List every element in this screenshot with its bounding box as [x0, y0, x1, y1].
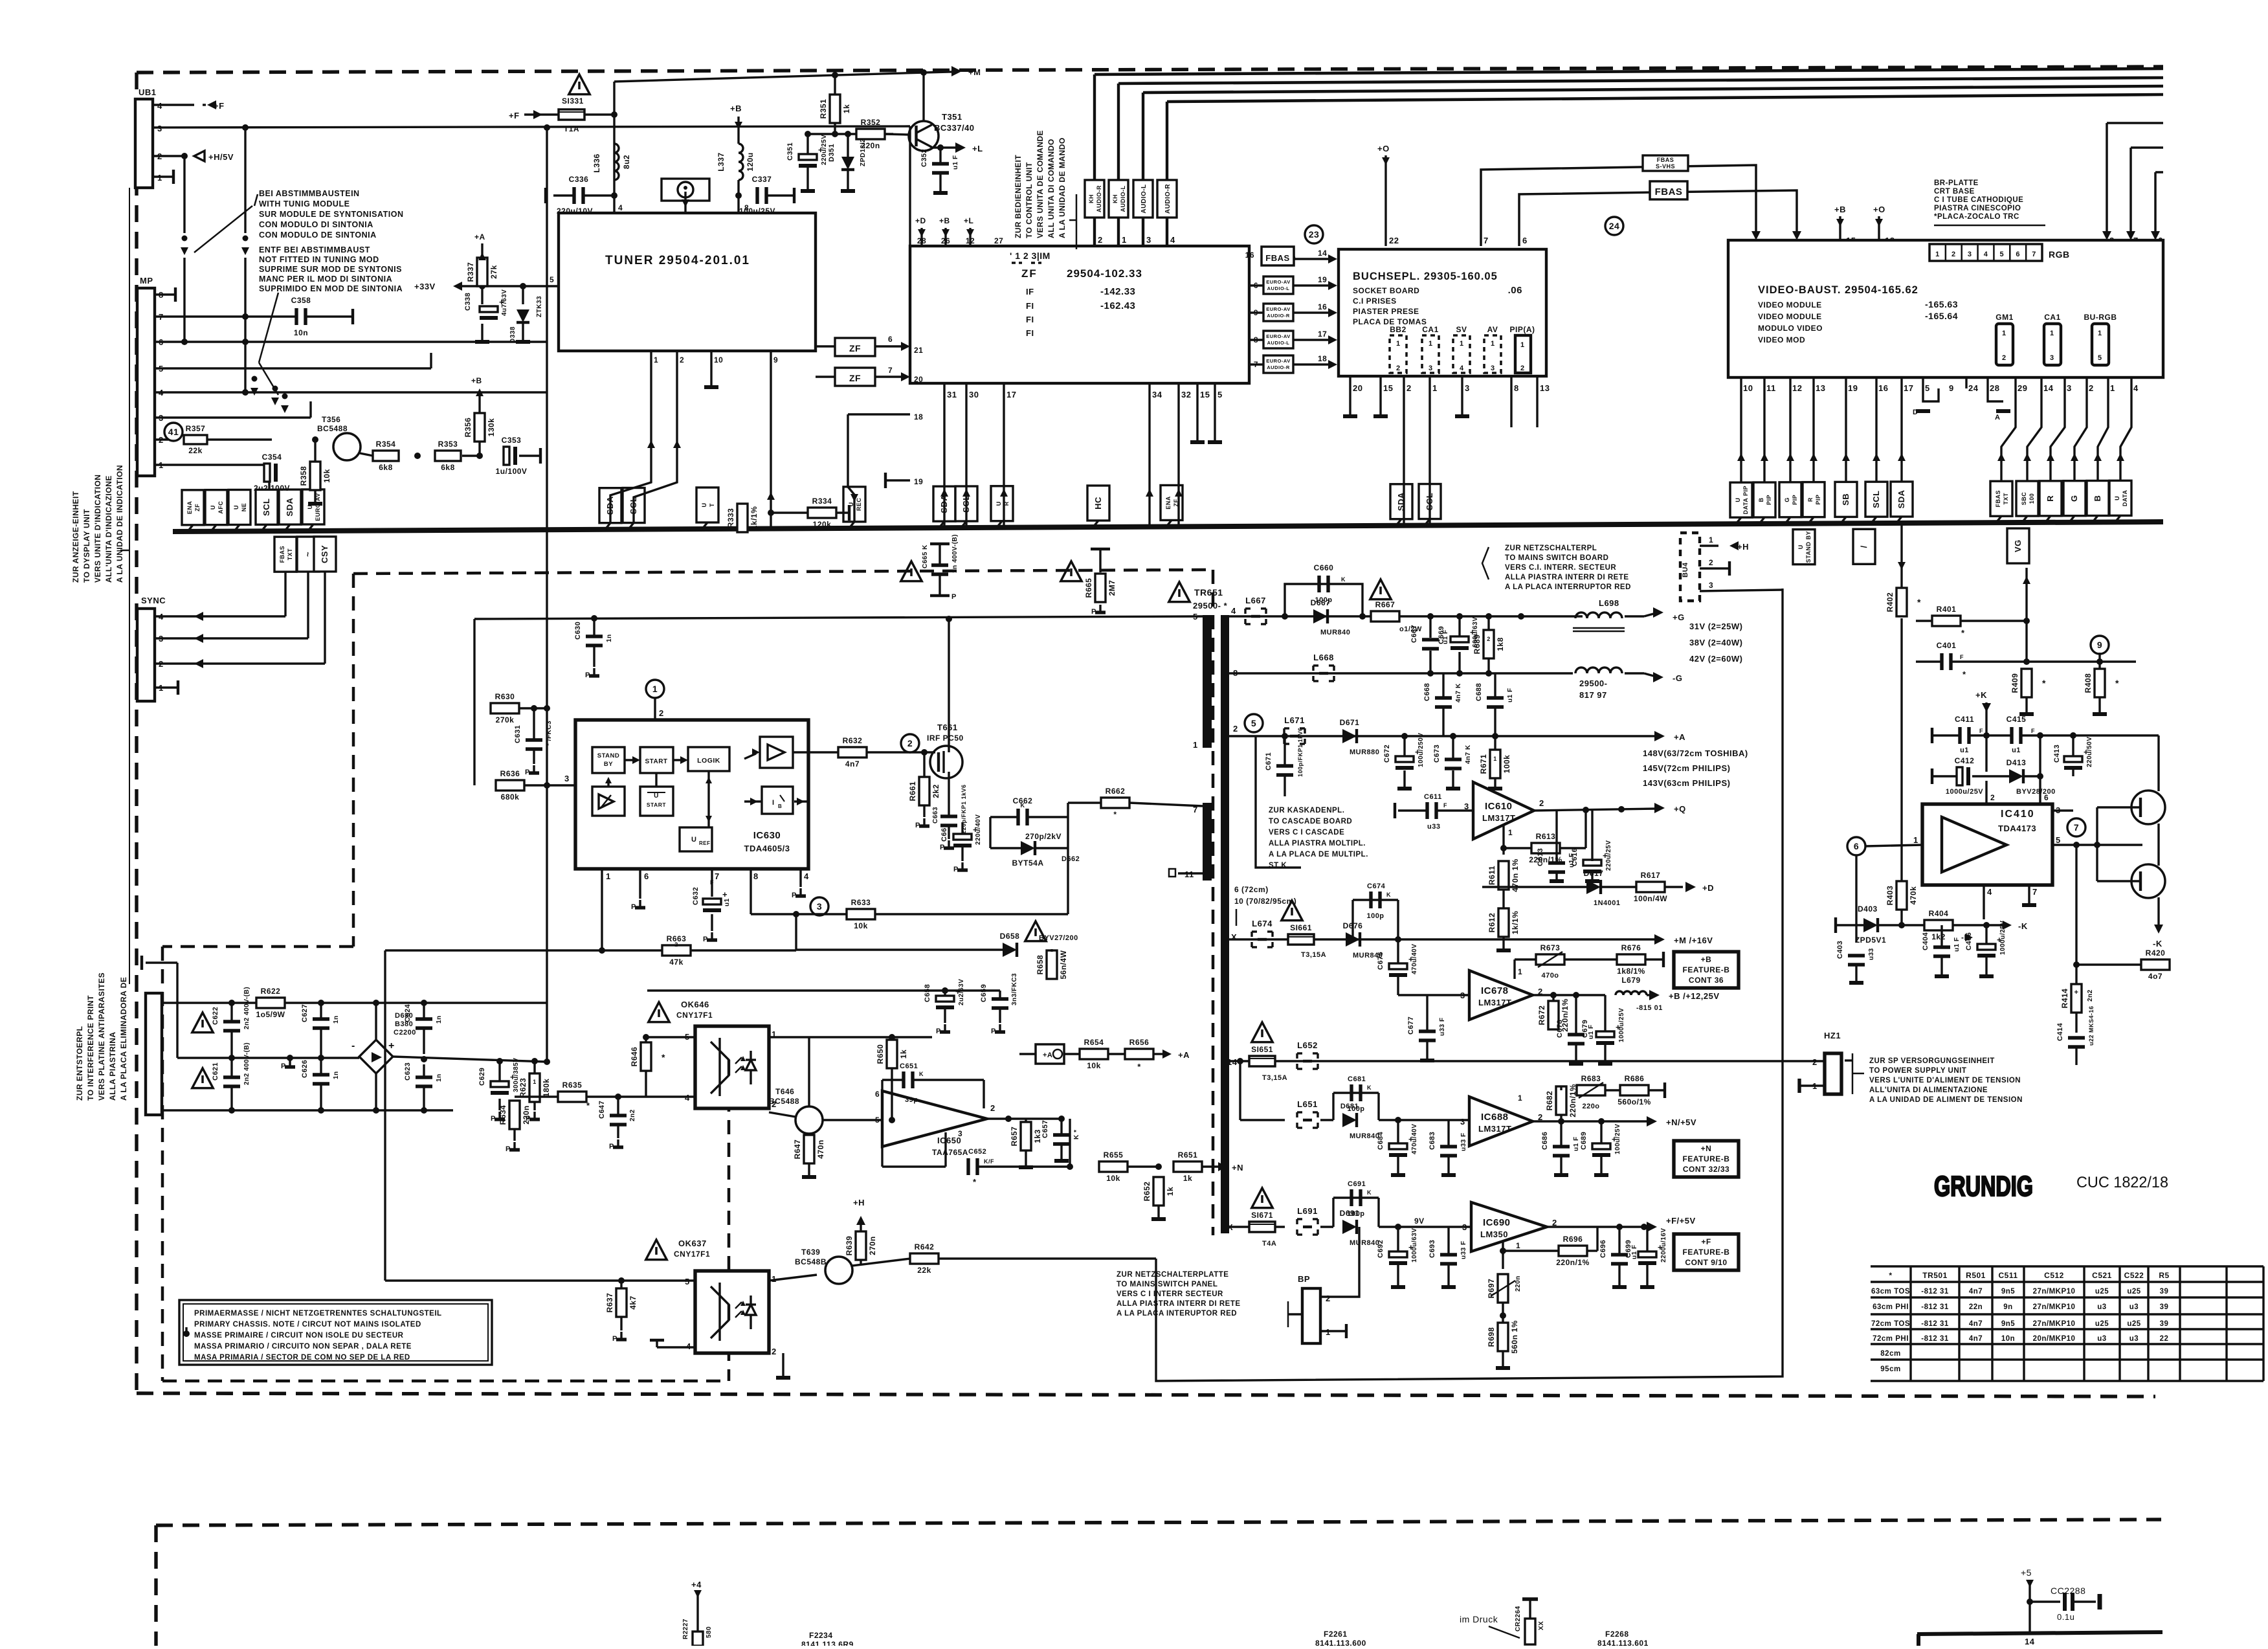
- svg-text:220n: 220n: [522, 1105, 531, 1124]
- svg-text:C660: C660: [1314, 563, 1334, 572]
- svg-text:+F: +F: [1701, 1237, 1711, 1246]
- svg-text:u3: u3: [2129, 1335, 2139, 1343]
- svg-text:1k/1%: 1k/1%: [750, 506, 759, 530]
- svg-text:C671: C671: [1265, 752, 1273, 770]
- svg-text:14: 14: [2043, 383, 2054, 393]
- svg-text:AV: AV: [1487, 325, 1498, 334]
- svg-text:ZF: ZF: [849, 343, 861, 353]
- svg-text:A LA PLACA DE MULTIPL.: A LA PLACA DE MULTIPL.: [1269, 851, 1368, 858]
- svg-text:SYNC: SYNC: [141, 596, 166, 605]
- svg-text:C669: C669: [1438, 626, 1445, 644]
- svg-text:FI: FI: [1026, 315, 1034, 324]
- svg-text:TXT: TXT: [287, 548, 293, 561]
- svg-text:EURO-AV: EURO-AV: [1266, 333, 1291, 339]
- svg-text:3: 3: [1465, 383, 1470, 393]
- svg-text:u3: u3: [2097, 1335, 2106, 1343]
- svg-text:9V: 9V: [1414, 1217, 1425, 1226]
- svg-text:C623: C623: [404, 1062, 412, 1081]
- svg-text:+O: +O: [1377, 144, 1390, 153]
- svg-text:C688: C688: [1475, 683, 1483, 701]
- svg-text:U: U: [654, 792, 659, 800]
- svg-text:R353: R353: [438, 440, 458, 449]
- svg-text:F: F: [710, 879, 714, 886]
- svg-text:T646: T646: [775, 1087, 794, 1096]
- svg-text:U: U: [210, 505, 216, 510]
- svg-text:27n/MKP10: 27n/MKP10: [2033, 1288, 2076, 1296]
- svg-text:1k3: 1k3: [1033, 1129, 1042, 1143]
- svg-text:B: B: [1758, 498, 1764, 502]
- svg-text:R650: R650: [876, 1044, 885, 1064]
- svg-text:1000u/25V: 1000u/25V: [1999, 921, 2007, 955]
- svg-text:P: P: [991, 1027, 996, 1035]
- svg-text:21: 21: [914, 346, 923, 355]
- svg-text:BP: BP: [1298, 1274, 1310, 1284]
- svg-text:4: 4: [804, 871, 809, 881]
- svg-text:LM317T: LM317T: [1482, 813, 1515, 823]
- svg-text:u33 F: u33 F: [1460, 1132, 1467, 1151]
- svg-text:C511: C511: [1998, 1271, 2018, 1280]
- svg-text:31: 31: [947, 390, 957, 399]
- svg-text:ALLA PIASTRA INTERR DI RETE: ALLA PIASTRA INTERR DI RETE: [1117, 1300, 1241, 1308]
- svg-text:MASSA PRIMARIO / CIRCUITO NON: MASSA PRIMARIO / CIRCUITO NON SEPAR , DA…: [194, 1343, 412, 1351]
- svg-text:AUDIO-R: AUDIO-R: [1267, 365, 1290, 370]
- svg-text:MP: MP: [140, 276, 153, 286]
- svg-text:u33: u33: [1868, 948, 1875, 960]
- svg-text:1n: 1n: [333, 1071, 340, 1079]
- svg-text:PIP: PIP: [1792, 495, 1798, 505]
- svg-text:R652: R652: [1142, 1182, 1151, 1202]
- svg-text:9: 9: [1949, 383, 1954, 393]
- svg-text:VERS PLATINE ANTIPARASITES: VERS PLATINE ANTIPARASITES: [97, 972, 106, 1101]
- svg-text:C411: C411: [1955, 715, 1974, 724]
- svg-text:PIP(A): PIP(A): [1510, 325, 1535, 334]
- svg-text:-162.43: -162.43: [1100, 300, 1135, 311]
- svg-text:1: 1: [1491, 340, 1495, 348]
- svg-text:1o5/9W: 1o5/9W: [256, 1010, 285, 1019]
- svg-text:REC: REC: [856, 498, 862, 511]
- svg-text:SI651: SI651: [1251, 1045, 1273, 1054]
- svg-text:PIASTRA CINESCOPIO: PIASTRA CINESCOPIO: [1934, 205, 2021, 212]
- svg-text:1k: 1k: [899, 1049, 908, 1059]
- svg-text:22k: 22k: [188, 446, 203, 455]
- svg-text:K: K: [1341, 576, 1346, 583]
- svg-text:72cm TOS: 72cm TOS: [1871, 1320, 1910, 1328]
- svg-text:P: P: [609, 1143, 614, 1150]
- svg-text:PIP: PIP: [1766, 495, 1772, 505]
- svg-text:19: 19: [1848, 383, 1858, 393]
- svg-text:2k2: 2k2: [931, 784, 940, 798]
- svg-text:*: *: [2042, 678, 2046, 688]
- svg-text:7: 7: [888, 366, 893, 375]
- svg-text:5: 5: [2000, 251, 2005, 258]
- svg-text:R698: R698: [1487, 1327, 1496, 1347]
- svg-text:145V(72cm PHILIPS): 145V(72cm PHILIPS): [1643, 763, 1730, 773]
- svg-text:1: 1: [1460, 340, 1464, 348]
- svg-text:R403: R403: [1885, 886, 1895, 906]
- svg-text:REF: REF: [699, 840, 711, 846]
- svg-text:2n2 400V-(B): 2n2 400V-(B): [243, 1042, 250, 1085]
- svg-text:-K: -K: [2018, 921, 2028, 931]
- svg-text:CSY: CSY: [320, 545, 329, 563]
- svg-text:CON MODULO DE SINTONIA: CON MODULO DE SINTONIA: [259, 230, 377, 240]
- svg-text:15: 15: [1200, 390, 1210, 399]
- svg-text:2: 2: [1487, 636, 1491, 642]
- svg-text:8: 8: [753, 871, 759, 881]
- svg-text:R646: R646: [630, 1047, 639, 1067]
- svg-text:TO MAINS SWITCH BOARD: TO MAINS SWITCH BOARD: [1505, 554, 1608, 562]
- svg-text:2: 2: [2089, 383, 2094, 393]
- svg-text:VERS L'UNITE D'ALIMENT DE TEN: VERS L'UNITE D'ALIMENT DE TENSION: [1869, 1077, 2021, 1084]
- svg-text:C624: C624: [404, 1004, 412, 1022]
- svg-text:-142.33: -142.33: [1100, 286, 1135, 297]
- svg-text:R404: R404: [1929, 909, 1949, 918]
- svg-text:SI331: SI331: [562, 96, 584, 106]
- svg-text:10n: 10n: [294, 328, 308, 337]
- svg-text:56n/4W: 56n/4W: [1059, 950, 1068, 979]
- svg-text:2: 2: [1233, 724, 1238, 734]
- svg-text:3: 3: [1709, 581, 1713, 590]
- svg-text:MUR840: MUR840: [1350, 1132, 1379, 1140]
- svg-text:220u/40V: 220u/40V: [975, 814, 982, 845]
- svg-text:C2200: C2200: [394, 1029, 416, 1037]
- svg-text:+H: +H: [853, 1198, 865, 1207]
- svg-text:u1 F: u1 F: [952, 155, 959, 170]
- svg-text:D662: D662: [1062, 855, 1080, 863]
- svg-text:VERS UNITE D'INDICATION: VERS UNITE D'INDICATION: [93, 475, 102, 583]
- svg-text:4k7: 4k7: [628, 1296, 638, 1310]
- svg-text:+H: +H: [1737, 542, 1749, 552]
- svg-text:C336: C336: [569, 175, 589, 184]
- svg-text:-165.64: -165.64: [1925, 311, 1958, 321]
- svg-text:ZTK33: ZTK33: [536, 296, 543, 317]
- svg-text:1n: 1n: [436, 1073, 443, 1082]
- svg-text:KH: KH: [1112, 194, 1118, 203]
- svg-text:IC630: IC630: [753, 830, 781, 841]
- svg-text:+B: +B: [939, 216, 950, 225]
- svg-text:FBAS: FBAS: [1995, 490, 2001, 508]
- svg-text:C622: C622: [212, 1007, 219, 1025]
- svg-text:TAA765A: TAA765A: [932, 1148, 968, 1157]
- svg-text:4u7/63V: 4u7/63V: [501, 289, 508, 316]
- svg-text:+M /+16V: +M /+16V: [1674, 936, 1713, 945]
- svg-text:C351: C351: [786, 142, 794, 161]
- svg-text:470u/40V: 470u/40V: [1411, 1124, 1418, 1154]
- svg-text:ZF: ZF: [194, 504, 201, 511]
- svg-text:41: 41: [168, 427, 179, 437]
- svg-text:R632: R632: [843, 736, 863, 745]
- svg-text:R409: R409: [2010, 673, 2019, 693]
- svg-text:2: 2: [1990, 793, 1995, 802]
- svg-text:I: I: [772, 799, 775, 807]
- svg-text:1000u/63V: 1000u/63V: [1411, 1228, 1418, 1262]
- svg-text:R683: R683: [1581, 1074, 1601, 1083]
- svg-text:R647: R647: [793, 1139, 802, 1160]
- svg-text:6: 6: [2016, 251, 2020, 258]
- svg-text:P: P: [951, 593, 957, 601]
- svg-text:1: 1: [2002, 330, 2007, 337]
- svg-text:SUPRIMIDO EN MOD DE SINTONIA: SUPRIMIDO EN MOD DE SINTONIA: [259, 284, 403, 293]
- svg-text:MUR880: MUR880: [1350, 748, 1379, 756]
- svg-text:3: 3: [1462, 1222, 1467, 1232]
- svg-text:F: F: [1443, 802, 1447, 809]
- svg-text:7: 7: [2032, 251, 2036, 258]
- svg-text:K: K: [1367, 1189, 1372, 1196]
- svg-text:10: 10: [714, 355, 723, 365]
- svg-text:A LA UNIDAD DE INDICATION: A LA UNIDAD DE INDICATION: [115, 465, 124, 583]
- svg-text:F2268: F2268: [1605, 1630, 1629, 1639]
- svg-text:6: 6: [888, 335, 893, 344]
- svg-text:5: 5: [875, 1116, 880, 1125]
- svg-text:38V (2=40W): 38V (2=40W): [1689, 638, 1742, 647]
- svg-text:220n/1%: 220n/1%: [1556, 1258, 1590, 1267]
- svg-text:START: START: [647, 802, 667, 808]
- svg-text:560o/1%: 560o/1%: [1618, 1097, 1651, 1106]
- svg-text:270n: 270n: [868, 1236, 877, 1255]
- svg-text:ALL'UNITA D'INDICAZIONE: ALL'UNITA D'INDICAZIONE: [104, 475, 113, 583]
- svg-text:R655: R655: [1104, 1150, 1124, 1160]
- svg-text:STAND BY: STAND BY: [1805, 531, 1812, 563]
- svg-text:+M: +M: [968, 67, 981, 77]
- svg-text:R637: R637: [605, 1293, 614, 1313]
- svg-text:R639: R639: [845, 1236, 854, 1256]
- svg-text:+B: +B: [471, 376, 482, 385]
- svg-text:20: 20: [914, 375, 923, 384]
- svg-text:K: K: [1367, 1084, 1372, 1091]
- svg-text:EURO-AV: EURO-AV: [1266, 358, 1291, 364]
- svg-text:220u/25V: 220u/25V: [1605, 840, 1612, 871]
- svg-text:R420: R420: [2146, 948, 2166, 958]
- svg-text:8141.113.600: 8141.113.600: [1315, 1639, 1366, 1646]
- svg-text:P: P: [936, 1027, 941, 1035]
- svg-text:95cm: 95cm: [1880, 1365, 1900, 1373]
- svg-text:C338: C338: [464, 293, 472, 311]
- svg-text:P: P: [612, 1335, 617, 1343]
- svg-text:F2234: F2234: [809, 1631, 833, 1640]
- svg-text:BEI ABSTIMMBAUSTEIN: BEI ABSTIMMBAUSTEIN: [259, 189, 360, 198]
- svg-text:+D: +D: [1702, 883, 1714, 893]
- svg-text:ALLA PIASTRA MOLTIPL.: ALLA PIASTRA MOLTIPL.: [1269, 840, 1366, 847]
- svg-text:u33: u33: [1427, 823, 1440, 831]
- svg-text:12: 12: [1792, 383, 1802, 393]
- svg-text:1: 1: [1193, 740, 1198, 750]
- svg-text:A LA PLACA INTERRUPTOR RED: A LA PLACA INTERRUPTOR RED: [1505, 583, 1631, 591]
- svg-text:u25: u25: [2127, 1288, 2140, 1296]
- svg-text:A LA UNIDAD DE MANDO: A LA UNIDAD DE MANDO: [1058, 137, 1067, 238]
- svg-text:3: 3: [1460, 1117, 1465, 1127]
- svg-text:*: *: [1961, 628, 1965, 638]
- svg-text:R656: R656: [1129, 1038, 1150, 1047]
- svg-text:A LA PLACA ELIMINADORA DE: A LA PLACA ELIMINADORA DE: [119, 977, 128, 1101]
- svg-text:u1: u1: [1960, 746, 1969, 754]
- svg-text:*PLACA-ZOCALO TRC: *PLACA-ZOCALO TRC: [1934, 213, 2019, 221]
- svg-text:R611: R611: [1487, 866, 1496, 885]
- svg-text:1: 1: [2110, 383, 2115, 393]
- svg-text:* /FKC3: * /FKC3: [546, 721, 553, 746]
- svg-text:CNY17F1: CNY17F1: [674, 1250, 710, 1259]
- svg-text:-K: -K: [2153, 939, 2162, 948]
- svg-text:L651: L651: [1297, 1099, 1318, 1109]
- svg-text:C684: C684: [1377, 1131, 1384, 1150]
- svg-text:P: P: [915, 822, 920, 829]
- svg-text:24: 24: [1968, 383, 1979, 393]
- svg-text:C613: C613: [1537, 848, 1544, 866]
- svg-text:32: 32: [1181, 390, 1191, 399]
- svg-text:C683: C683: [1429, 1132, 1436, 1150]
- svg-text:P: P: [525, 768, 530, 776]
- svg-text:U: U: [701, 502, 707, 507]
- svg-text:C681: C681: [1348, 1075, 1366, 1083]
- svg-text:TUNER 29504-201.01: TUNER 29504-201.01: [605, 254, 750, 267]
- svg-text:SUPRIME SUR MOD DE SYNTONIS: SUPRIME SUR MOD DE SYNTONIS: [259, 265, 402, 274]
- svg-text:C673: C673: [1433, 745, 1441, 763]
- svg-text:R651: R651: [1178, 1150, 1198, 1160]
- svg-text:2200u/16V: 2200u/16V: [1660, 1228, 1667, 1262]
- svg-text:220o: 220o: [1582, 1103, 1599, 1110]
- svg-text:NE: NE: [241, 503, 247, 512]
- svg-text:27n/MKP10: 27n/MKP10: [2033, 1320, 2076, 1328]
- svg-text:100n/4W: 100n/4W: [1634, 894, 1667, 903]
- svg-text:VIDEO MOD: VIDEO MOD: [1758, 335, 1805, 344]
- svg-text:2M7: 2M7: [1107, 580, 1117, 596]
- svg-text:SCL: SCL: [1871, 490, 1881, 508]
- svg-text:10: 10: [1743, 383, 1753, 393]
- svg-text:8: 8: [1514, 383, 1519, 393]
- svg-text:5: 5: [1193, 612, 1198, 622]
- svg-text:FEATURE-B: FEATURE-B: [1683, 1248, 1730, 1257]
- svg-text:31V (2=25W): 31V (2=25W): [1689, 622, 1742, 631]
- svg-text:10k: 10k: [1106, 1174, 1120, 1183]
- svg-text:VIDEO MODULE: VIDEO MODULE: [1758, 312, 1822, 321]
- svg-text:FBAS: FBAS: [279, 546, 285, 563]
- svg-text:F: F: [2031, 728, 2035, 734]
- svg-text:39: 39: [2160, 1320, 2169, 1328]
- svg-text:C647: C647: [598, 1101, 606, 1119]
- svg-text:ALL UNITA DI COMANDO: ALL UNITA DI COMANDO: [1047, 139, 1056, 238]
- svg-text:LM317T: LM317T: [1478, 1124, 1511, 1134]
- svg-text:PIASTER PRESE: PIASTER PRESE: [1353, 307, 1419, 316]
- svg-text:BYT54A: BYT54A: [1012, 858, 1043, 868]
- svg-text:3: 3: [1146, 235, 1151, 245]
- svg-text:LOGIK: LOGIK: [697, 757, 720, 765]
- svg-text:4: 4: [1231, 606, 1236, 616]
- svg-text:63cm TOS: 63cm TOS: [1871, 1288, 1910, 1296]
- svg-text:1: 1: [1516, 1241, 1520, 1250]
- svg-text:BR-PLATTE: BR-PLATTE: [1934, 179, 1979, 187]
- svg-text:1: 1: [1518, 967, 1522, 976]
- svg-text:AUDIO-R: AUDIO-R: [1096, 185, 1102, 212]
- svg-text:19: 19: [914, 477, 923, 486]
- svg-text:D351: D351: [828, 144, 836, 162]
- svg-text:6 (72cm): 6 (72cm): [1234, 885, 1269, 894]
- svg-text:+B /+12,25V: +B /+12,25V: [1669, 991, 1720, 1001]
- svg-text:IC410: IC410: [2001, 809, 2035, 820]
- svg-text:VIDEO-BAUST. 29504-165.62: VIDEO-BAUST. 29504-165.62: [1758, 284, 1918, 296]
- svg-text:R673: R673: [1540, 943, 1561, 952]
- svg-text:R356: R356: [463, 418, 472, 438]
- svg-text:3: 3: [564, 774, 570, 783]
- svg-text:ZF: ZF: [1021, 267, 1038, 280]
- svg-text:ZUR SP VERSORGUNGSEINHEIT: ZUR SP VERSORGUNGSEINHEIT: [1869, 1057, 1995, 1065]
- svg-text:3: 3: [958, 1129, 962, 1138]
- svg-text:1n: 1n: [436, 1015, 443, 1024]
- svg-text:4: 4: [1170, 235, 1175, 245]
- svg-text:180k: 180k: [542, 1079, 551, 1097]
- svg-text:1: 1: [533, 1079, 537, 1085]
- svg-text:u25: u25: [2095, 1288, 2109, 1296]
- svg-text:R630: R630: [495, 692, 515, 701]
- svg-text:TR501: TR501: [1922, 1271, 1948, 1280]
- svg-text:20: 20: [1353, 383, 1362, 393]
- svg-text:C521: C521: [2092, 1271, 2112, 1280]
- svg-text:1: 1: [1493, 756, 1497, 762]
- svg-text:17: 17: [1006, 390, 1016, 399]
- svg-text:1: 1: [2050, 330, 2054, 337]
- svg-text:4n7 K: 4n7 K: [1465, 745, 1472, 764]
- svg-text:G: G: [2069, 495, 2079, 502]
- svg-text:D413: D413: [2007, 758, 2027, 767]
- svg-text:R612: R612: [1487, 913, 1496, 933]
- svg-text:34: 34: [1152, 390, 1162, 399]
- svg-text:R633: R633: [851, 898, 871, 907]
- svg-text:ZUR ENTSTOERPL: ZUR ENTSTOERPL: [75, 1026, 84, 1101]
- svg-text:11: 11: [1766, 383, 1776, 393]
- svg-text:C401: C401: [1937, 641, 1957, 650]
- svg-text:BY: BY: [604, 761, 613, 768]
- svg-text:R658: R658: [1036, 955, 1045, 975]
- svg-text:C630: C630: [574, 622, 582, 640]
- svg-text:u33 F: u33 F: [1460, 1240, 1467, 1259]
- svg-text:2: 2: [1812, 1057, 1818, 1067]
- svg-text:EURO-AV: EURO-AV: [1266, 279, 1291, 285]
- svg-text:C686: C686: [1541, 1132, 1549, 1150]
- svg-text:10k: 10k: [322, 469, 331, 483]
- svg-text:2u2/100V: 2u2/100V: [254, 484, 290, 493]
- svg-text:8141.113.6R9: 8141.113.6R9: [801, 1640, 854, 1646]
- svg-text:B: B: [778, 803, 782, 809]
- svg-text:TO INTERFERENCE PRINT: TO INTERFERENCE PRINT: [86, 995, 95, 1101]
- svg-text:L691: L691: [1297, 1206, 1318, 1216]
- svg-text:DATA: DATA: [2122, 489, 2128, 506]
- svg-text:470o: 470o: [1541, 972, 1559, 980]
- svg-text:-812 31: -812 31: [1921, 1303, 1949, 1311]
- svg-text:39: 39: [2160, 1303, 2169, 1311]
- svg-text:P: P: [792, 892, 797, 899]
- svg-text:22n: 22n: [1969, 1303, 1983, 1311]
- svg-text:-812 31: -812 31: [1921, 1288, 1949, 1296]
- svg-text:~: ~: [303, 552, 313, 557]
- svg-text:C627: C627: [301, 1004, 309, 1022]
- svg-text:TO POWER SUPPLY UNIT: TO POWER SUPPLY UNIT: [1869, 1067, 1966, 1075]
- svg-text:4: 4: [618, 203, 623, 212]
- svg-text:D691: D691: [1340, 1209, 1360, 1218]
- svg-text:.06: .06: [1508, 285, 1522, 296]
- svg-text:u33 F: u33 F: [1439, 1017, 1446, 1036]
- svg-text:U: U: [995, 501, 1002, 506]
- svg-text:C629: C629: [478, 1068, 486, 1086]
- svg-text:+N: +N: [1232, 1163, 1243, 1172]
- svg-text:BC548B: BC548B: [795, 1257, 827, 1266]
- svg-text:CA1: CA1: [1422, 325, 1439, 334]
- svg-text:-G: -G: [1673, 673, 1682, 683]
- svg-text:5: 5: [1251, 718, 1256, 728]
- svg-text:0.1u: 0.1u: [2057, 1612, 2074, 1622]
- svg-text:2n2: 2n2: [629, 1109, 636, 1121]
- svg-text:FBAS: FBAS: [1265, 253, 1289, 263]
- svg-text:BUCHSEPL. 29305-160.05: BUCHSEPL. 29305-160.05: [1353, 271, 1498, 282]
- svg-text:3: 3: [1491, 365, 1495, 372]
- svg-text:C693: C693: [1429, 1240, 1436, 1258]
- svg-text:IF: IF: [1026, 287, 1034, 297]
